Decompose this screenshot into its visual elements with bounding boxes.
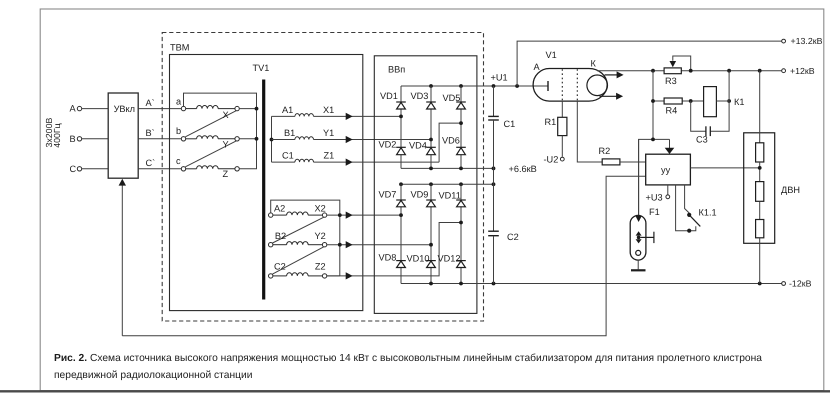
svg-text:-12кВ: -12кВ xyxy=(789,279,812,289)
svg-text:R1: R1 xyxy=(545,117,557,127)
svg-text:УВкл: УВкл xyxy=(114,104,135,114)
divider resistor 3 xyxy=(756,220,764,238)
switch K1.1 contacts xyxy=(687,213,691,233)
wire R3 wiper loop xyxy=(673,56,691,71)
terminal -12kV xyxy=(782,282,786,286)
schematic main group xyxy=(77,33,645,336)
svg-text:TV1: TV1 xyxy=(253,63,270,73)
svg-text:К1.1: К1.1 xyxy=(699,207,717,217)
secondary winding A2-X2 xyxy=(269,212,327,217)
block UVkl (turn-on unit) xyxy=(108,93,138,178)
svg-text:VD4: VD4 xyxy=(409,141,427,151)
junction lower column1 phase xyxy=(399,213,403,217)
junction dots on +6.6 rail xyxy=(429,167,495,171)
junction primary bus at a xyxy=(255,107,259,111)
svg-text:C1: C1 xyxy=(282,151,294,161)
svg-text:Z2: Z2 xyxy=(315,262,326,272)
svg-text:К1: К1 xyxy=(734,97,744,107)
svg-text:R4: R4 xyxy=(666,106,678,116)
svg-text:+12кВ: +12кВ xyxy=(790,66,815,76)
solid box around TV1 xyxy=(170,55,363,311)
svg-text:VD10: VD10 xyxy=(407,254,430,264)
diode VD12 xyxy=(456,261,466,268)
wire diagonal X to b xyxy=(185,111,236,137)
svg-text:+6.6кВ: +6.6кВ xyxy=(509,164,537,174)
arrow Y2 xyxy=(346,241,353,248)
wire feedback bottom run xyxy=(122,176,645,336)
F1 top electrode arrow xyxy=(635,216,641,222)
resistor R4 xyxy=(664,98,682,104)
block DVN divider box xyxy=(744,133,775,244)
svg-text:+U1: +U1 xyxy=(491,73,508,83)
wire C' xyxy=(138,168,181,170)
diode VD7 xyxy=(396,200,406,207)
svg-text:С`: С` xyxy=(146,158,156,168)
F1 bottom electrode circle xyxy=(636,250,641,255)
svg-text:V1: V1 xyxy=(546,50,557,60)
arrow Z1 xyxy=(346,159,353,166)
wire upper bridge column 1 xyxy=(400,86,402,168)
resistor R1 xyxy=(558,117,567,135)
klystron grid gap dotted 1 xyxy=(561,69,563,100)
caption xyxy=(54,353,762,381)
svg-text:VD12: VD12 xyxy=(438,254,461,264)
capacitor C1 xyxy=(488,86,499,231)
terminal +13.2kV xyxy=(782,39,786,43)
wire Y2 to bridge xyxy=(327,244,431,246)
dashed box TVM xyxy=(162,33,483,322)
arrow Z2 xyxy=(346,272,353,279)
ground symbol xyxy=(631,269,646,271)
relay coil K1 xyxy=(704,87,717,117)
junction divider tap xyxy=(758,166,762,170)
junction lower column2 phase xyxy=(429,243,433,247)
terminal +12kV xyxy=(782,69,786,73)
node B input terminal xyxy=(77,137,108,141)
junction column2 phase B xyxy=(429,138,433,142)
svg-text:VD8: VD8 xyxy=(379,253,397,263)
svg-text:+U3: +U3 xyxy=(646,192,663,202)
wire -12kV rail xyxy=(401,283,782,285)
wire R4 row xyxy=(653,100,704,102)
junction lower column3 phase xyxy=(459,221,463,225)
feedback arrow into UVkl xyxy=(119,179,126,336)
bottom rule xyxy=(0,390,830,392)
svg-text:VD1: VD1 xyxy=(380,91,398,101)
terminal +U3 xyxy=(666,195,670,199)
junction secondary2 bus at X2 xyxy=(338,213,342,217)
svg-text:VD2: VD2 xyxy=(379,140,397,150)
capacitor C3 plates xyxy=(706,126,710,136)
svg-text:ВВп: ВВп xyxy=(388,65,405,75)
wire klystron body to R2 xyxy=(577,101,602,162)
svg-text:b: b xyxy=(176,126,181,136)
wire cathode K to R3 xyxy=(597,70,664,72)
diode VD3 xyxy=(426,102,436,109)
junction primary bus at b xyxy=(255,137,259,141)
svg-text:VD6: VD6 xyxy=(442,136,460,146)
wire uu pin to K1.1 top contact xyxy=(685,185,690,213)
svg-text:Z: Z xyxy=(223,169,229,179)
secondary winding C1-Z1 xyxy=(272,159,440,162)
wire R1 to -U2 xyxy=(561,136,563,157)
junction dots on +12 row xyxy=(651,69,762,73)
svg-text:VD11: VD11 xyxy=(439,191,461,201)
svg-text:ДВН: ДВН xyxy=(781,185,800,195)
junction column1 phase A xyxy=(399,115,403,119)
capacitor C3 loop xyxy=(691,101,729,131)
wire diagonal Y to c xyxy=(185,141,236,167)
svg-text:передвижной радиолокационной с: передвижной радиолокационной станции xyxy=(54,370,253,381)
resistor R2 xyxy=(602,159,620,165)
wire delta loop secondary2 xyxy=(271,200,340,276)
diode VD4 xyxy=(426,147,436,154)
svg-text:ТВМ: ТВМ xyxy=(170,43,189,53)
wire lower bridge column 3 xyxy=(460,184,462,283)
wire upper bridge column 3 xyxy=(460,86,462,168)
arrow X1 xyxy=(346,113,353,120)
arrow R3 wiper xyxy=(670,61,677,67)
capacitor C2 xyxy=(488,231,499,283)
svg-text:X1: X1 xyxy=(323,105,334,115)
svg-text:A1: A1 xyxy=(282,105,293,115)
svg-text:X: X xyxy=(223,110,229,120)
svg-text:C2: C2 xyxy=(507,232,519,242)
transformer TV1 core xyxy=(262,80,265,300)
wire R2 to uu xyxy=(620,161,646,163)
svg-text:А: А xyxy=(534,62,541,72)
arrow X2 xyxy=(346,212,353,219)
wire diagonal Y2 to C2 xyxy=(273,247,324,274)
arrow Y1 xyxy=(346,136,353,143)
svg-text:R2: R2 xyxy=(599,146,611,156)
diode VD1 xyxy=(396,102,406,109)
klystron output arrow upper xyxy=(605,71,624,78)
primary winding a-X xyxy=(181,105,239,110)
wire lower bridge column 1 xyxy=(400,184,402,283)
tube F1 body xyxy=(630,215,646,260)
labels layer xyxy=(44,43,800,272)
arrow into uu top xyxy=(665,139,675,154)
wire lower bridge plus rail xyxy=(401,183,494,185)
wire uu pin to K1.1 bottom contact xyxy=(676,185,696,231)
junction sense node xyxy=(651,138,655,142)
wire uu pin +U3 xyxy=(667,185,669,195)
wire between divider resistors 2-3 xyxy=(759,201,761,219)
wire X2 to bridge xyxy=(327,214,401,216)
klystron anode electrode xyxy=(547,81,549,91)
terminal -U2 xyxy=(560,157,564,161)
wire anode loop to +13.2kV xyxy=(517,41,782,86)
junction dots on lower plus rail xyxy=(399,182,495,186)
klystron output arrow lower xyxy=(600,93,624,100)
svg-text:Y: Y xyxy=(223,140,229,150)
resistor R3 (adjustable) xyxy=(664,68,681,74)
svg-text:C1: C1 xyxy=(504,119,516,129)
diode VD5 xyxy=(456,102,466,109)
wire F1 to ground xyxy=(637,260,639,269)
svg-text:400Гц: 400Гц xyxy=(52,123,62,147)
wire B' xyxy=(138,138,181,140)
regulator right section xyxy=(517,39,785,283)
diode VD2 xyxy=(396,147,406,154)
wire +U1 rail (upper bridge plus) xyxy=(401,85,548,87)
diode VD8 xyxy=(396,261,406,268)
rectifier section xyxy=(374,56,785,314)
junction dots on +U1 rail xyxy=(429,84,519,88)
svg-text:С: С xyxy=(70,164,77,174)
svg-text:a: a xyxy=(176,97,182,107)
wire A' xyxy=(138,108,181,110)
junction column3 phase C xyxy=(459,121,463,125)
svg-text:VD5: VD5 xyxy=(443,93,461,103)
secondary winding C2-Z2 xyxy=(269,273,327,278)
junction dots on -12 rail xyxy=(429,282,761,286)
svg-text:А: А xyxy=(70,104,77,114)
diode VD6 xyxy=(456,147,466,154)
secondary winding B1-Y1 xyxy=(272,137,432,140)
junction group1 bus xyxy=(270,138,274,142)
node C input terminal xyxy=(77,167,108,171)
secondary winding A1-X1 xyxy=(272,114,402,117)
wire sense to uu input node xyxy=(639,139,670,215)
wire divider bottom to -12 rail xyxy=(759,238,761,284)
svg-text:А`: А` xyxy=(146,98,155,108)
diode VD10 xyxy=(426,261,436,268)
wire Z1 route up to bridge column 3 xyxy=(439,123,461,162)
wire diagonal X2 to B2 xyxy=(273,217,324,243)
diode VD9 xyxy=(426,200,436,207)
svg-text:VD3: VD3 xyxy=(411,91,429,101)
wire left sense column xyxy=(652,71,654,140)
svg-text:F1: F1 xyxy=(649,207,660,217)
svg-text:В: В xyxy=(70,134,76,144)
svg-text:VD9: VD9 xyxy=(411,190,429,200)
wire delta loop primary xyxy=(184,93,257,169)
block uu (control unit) xyxy=(646,154,691,185)
wire Z2 to bridge route xyxy=(327,223,461,276)
svg-text:Рис. 2. Схема источника высок: Рис. 2. Схема источника высокого напряже… xyxy=(54,353,762,364)
svg-text:R3: R3 xyxy=(665,76,677,86)
svg-text:B1: B1 xyxy=(284,128,295,138)
F1 middle electrode arrows and dot xyxy=(636,231,642,243)
svg-text:К: К xyxy=(591,59,597,69)
svg-text:C2: C2 xyxy=(274,262,286,272)
divider resistor 2 xyxy=(756,182,764,202)
svg-text:-U2: -U2 xyxy=(544,154,559,164)
wire F1 drop xyxy=(638,139,640,217)
wire between divider resistors xyxy=(759,162,761,182)
svg-text:уу: уу xyxy=(661,165,671,175)
secondary group1 star bus xyxy=(271,116,273,162)
svg-text:Y1: Y1 xyxy=(323,128,334,138)
junction secondary2 bus at Y2 xyxy=(338,243,342,247)
wire +12 rail into DVN xyxy=(759,71,761,143)
svg-text:+13.2кВ: +13.2кВ xyxy=(791,36,823,46)
wire +12kV rail right of R3 xyxy=(681,70,781,72)
klystron collector cup xyxy=(587,75,608,96)
svg-text:Y2: Y2 xyxy=(315,231,326,241)
wire lower bridge column 2 xyxy=(430,184,432,283)
svg-text:A2: A2 xyxy=(274,204,285,214)
klystron grid gap dotted 2 xyxy=(576,69,578,100)
wire uu output to DVN divider xyxy=(690,167,759,169)
wire K1 right to +12 rail xyxy=(716,71,729,101)
wire R1 from klystron xyxy=(561,101,563,118)
svg-text:Z1: Z1 xyxy=(324,151,335,161)
klystron V1 body xyxy=(533,69,607,102)
node A input terminal xyxy=(77,106,108,110)
svg-text:В`: В` xyxy=(146,128,155,138)
primary winding c-Z xyxy=(181,166,239,171)
svg-text:VD7: VD7 xyxy=(379,190,397,200)
divider resistor 1 xyxy=(756,143,764,162)
svg-text:X2: X2 xyxy=(315,204,326,214)
primary winding b-Y xyxy=(181,136,239,141)
secondary winding B2-Y2 xyxy=(269,242,327,247)
wire upper bridge column 2 xyxy=(430,86,432,168)
box VVp xyxy=(374,56,477,314)
svg-text:c: c xyxy=(176,156,181,166)
switch K1.1 blade xyxy=(689,215,700,227)
svg-text:B2: B2 xyxy=(275,231,286,241)
F1 side electrode xyxy=(640,232,654,243)
junction dots on R4 row xyxy=(651,99,731,103)
wire +6.6kV rail (upper bridge minus) xyxy=(401,167,494,169)
diode VD11 xyxy=(456,200,466,207)
svg-text:С3: С3 xyxy=(696,135,708,145)
